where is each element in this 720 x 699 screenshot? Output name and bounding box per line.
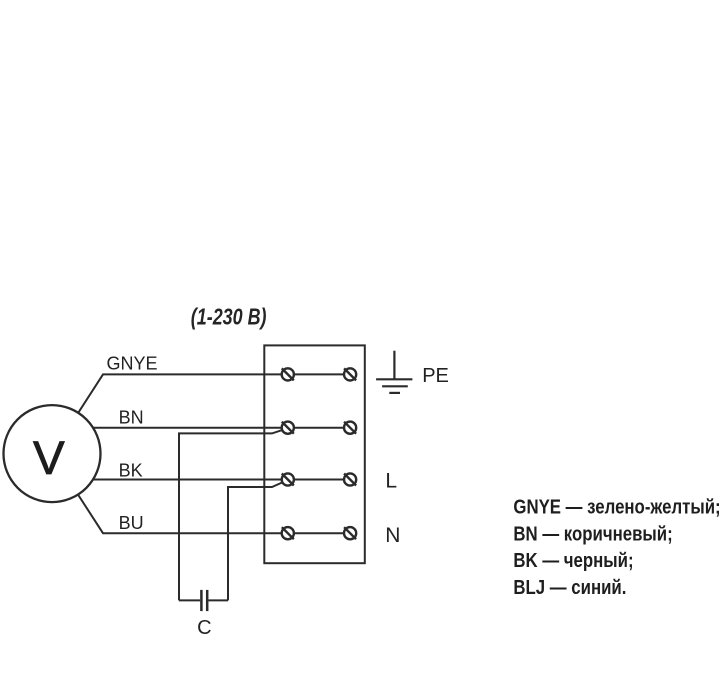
svg-text:GNYE — зелено-желтый;: GNYE — зелено-желтый;: [513, 495, 720, 518]
wire BU from motor to terminal 4: [52, 454, 288, 533]
wire BN from motor to terminal 2: [52, 427, 288, 429]
legend line BN: [513, 522, 672, 545]
screw terminal 1R: [344, 368, 356, 380]
screw terminal 4L: [282, 527, 294, 539]
terminal row 2 link: [288, 427, 350, 429]
wire capacitor branch to terminal 3: [228, 480, 288, 600]
svg-text:BLJ — синий.: BLJ — синий.: [513, 575, 626, 598]
svg-text:L: L: [385, 470, 397, 493]
terminal row 1 link: [288, 373, 350, 375]
capacitor C plates: [201, 590, 207, 611]
svg-text:BN — коричневый;: BN — коричневый;: [513, 522, 672, 545]
ground PE symbol: [376, 351, 412, 393]
terminal block outline: [264, 345, 365, 563]
wire capacitor right lead: [208, 599, 228, 601]
svg-text:C: C: [197, 617, 211, 639]
screw terminal 2L: [282, 422, 294, 434]
legend line GNYE: [513, 495, 720, 518]
legend line BLJ: [513, 575, 626, 598]
wire GNYE from motor to terminal 1: [52, 374, 288, 454]
svg-text:N: N: [385, 524, 400, 547]
terminal row 4 link: [288, 532, 350, 534]
wire BK from motor to terminal 3: [52, 479, 288, 481]
legend line BK: [513, 549, 633, 572]
svg-text:BK — черный;: BK — черный;: [513, 549, 633, 572]
svg-text:PE: PE: [422, 365, 449, 387]
svg-text:BU: BU: [119, 513, 144, 533]
screw terminal 1L: [282, 368, 294, 380]
svg-text:BN: BN: [119, 407, 144, 427]
svg-text:BK: BK: [119, 460, 143, 480]
terminal row 3 link: [288, 479, 350, 481]
svg-text:(1-230 В): (1-230 В): [191, 304, 267, 330]
screw terminal 4R: [344, 527, 356, 539]
wire capacitor branch to terminal 2: [179, 428, 288, 600]
svg-text:V: V: [33, 432, 65, 485]
svg-text:GNYE: GNYE: [107, 353, 158, 373]
label voltage (1-230 V): [191, 304, 267, 330]
screw terminal 3R: [344, 473, 356, 485]
screw terminal 3L: [282, 473, 294, 485]
motor circle V: [4, 405, 101, 502]
wire capacitor left lead: [179, 599, 200, 601]
screw terminal 2R: [344, 422, 356, 434]
